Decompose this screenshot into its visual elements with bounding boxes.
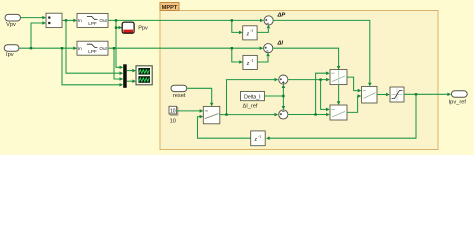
wire Ipv raw to mux in4 xyxy=(62,48,123,86)
svg-text:-1: -1 xyxy=(250,29,253,33)
input port Vpv xyxy=(5,14,21,28)
svg-text:Out: Out xyxy=(99,46,107,51)
svg-text:Ipv_ref: Ipv_ref xyxy=(449,100,467,106)
wire control pass through switch2 xyxy=(338,70,340,84)
wire S3 to top switch in2 and bottom switch in1 xyxy=(288,78,330,111)
junction dI-tap xyxy=(231,47,233,49)
svg-text:z: z xyxy=(246,30,250,37)
svg-text:z: z xyxy=(254,136,258,143)
svg-text:reset: reset xyxy=(173,93,186,99)
wire Ipv filtered drop to mux in3 xyxy=(114,48,123,81)
constant block 10 xyxy=(169,106,178,124)
switch4 block middle xyxy=(362,86,377,103)
wire z3 to switch1 in3 xyxy=(198,115,251,138)
canvas background xyxy=(0,0,474,155)
wire mux2 to scope2 in2 xyxy=(127,79,136,83)
wire switch4 to saturation xyxy=(377,93,390,97)
label dI xyxy=(277,41,284,47)
svg-text:z: z xyxy=(246,60,250,67)
wire Vpv to product in1 xyxy=(21,16,47,20)
sum block S1 xyxy=(264,16,273,25)
svg-text:-1: -1 xyxy=(258,135,261,139)
sum block S4 plus minus xyxy=(279,110,288,119)
wire z1 to sum1 minus xyxy=(257,25,270,33)
svg-text:MPPT: MPPT xyxy=(162,5,178,11)
junction Ppv-drop xyxy=(115,19,117,21)
wire S4 to bottom switch in2 and top switch in1 xyxy=(288,71,330,116)
unit delay z3 xyxy=(251,131,266,146)
junction switch1-out xyxy=(225,113,227,115)
wire z2 to sum2 minus xyxy=(257,53,270,62)
output port Ipv_ref xyxy=(449,91,468,106)
svg-text:LPF: LPF xyxy=(88,21,97,26)
svg-text:ΔI_ref: ΔI_ref xyxy=(243,103,258,109)
input port reset xyxy=(171,85,187,99)
wire product to LPF1 xyxy=(62,19,77,23)
junction Delta_I-split xyxy=(282,95,284,97)
switch1 block xyxy=(203,106,220,123)
svg-text:10: 10 xyxy=(170,109,176,115)
svg-text:In: In xyxy=(78,46,82,51)
svg-text:Vpv: Vpv xyxy=(6,22,16,28)
wire Ipv branch up to product in2 xyxy=(31,21,46,48)
MPPT area frame xyxy=(160,11,438,150)
svg-text:ΔP: ΔP xyxy=(277,13,286,19)
LPF subsystem U2 xyxy=(77,41,108,55)
svg-text:Ipv: Ipv xyxy=(6,52,14,58)
switch2 block top xyxy=(330,70,347,85)
junction dP-tap xyxy=(231,19,233,21)
scope2 dual waveform scope xyxy=(136,66,152,85)
wire 10 to switch1 in1 xyxy=(177,109,204,113)
LPF subsystem U1 xyxy=(77,13,108,27)
svg-text:Out: Out xyxy=(99,18,107,23)
svg-text:LPF: LPF xyxy=(88,49,97,54)
svg-text:Delta_I: Delta_I xyxy=(244,94,260,100)
wire Ipv main run to LPF2 xyxy=(19,46,77,50)
junction feedback-tap xyxy=(415,93,417,95)
constant block Delta_I xyxy=(241,91,265,109)
switch3 block bottom xyxy=(330,105,347,120)
mux M1 M2 xyxy=(123,64,127,88)
svg-text:ΔI: ΔI xyxy=(277,41,284,47)
wire Delta_I to mid sums xyxy=(264,84,285,109)
wire mux1 to scope2 in1 xyxy=(127,69,136,73)
scope Ppv xyxy=(122,22,148,33)
sum block S2 xyxy=(264,44,273,53)
wire Ppv filtered main run LPF1 to sum1 xyxy=(108,19,264,23)
svg-text:Ppv: Ppv xyxy=(138,26,148,32)
svg-text:10: 10 xyxy=(170,119,176,125)
wire Ppv drop to scope and mux in1 xyxy=(116,20,123,69)
svg-text:In: In xyxy=(78,18,82,23)
wire sum2 dI to top switch control xyxy=(273,48,341,69)
junction S3-out xyxy=(319,78,321,80)
junction S4-out xyxy=(314,113,316,115)
wire branch to unit delay z2 xyxy=(232,48,243,64)
input port Ipv xyxy=(4,45,19,58)
label dP xyxy=(277,13,286,19)
MPPT area label xyxy=(160,3,179,11)
sum block S3 plus plus xyxy=(279,75,288,84)
wire feedback to unit delay z3 xyxy=(266,94,416,140)
junction Ipv-raw-drop xyxy=(61,47,63,49)
junction Ipv-product xyxy=(30,47,32,49)
wire reset to switch1 control xyxy=(187,88,214,106)
saturation block xyxy=(390,87,404,102)
junction Ipv-filt-drop xyxy=(113,47,115,49)
svg-text:-1: -1 xyxy=(250,59,253,63)
wire switch1 to mid sums xyxy=(219,78,278,117)
wire Ipv filtered main run LPF2 to sum2 xyxy=(108,46,263,50)
wire sum1 dP to middle switch control xyxy=(273,20,371,86)
product block xyxy=(46,13,62,27)
wire saturation to Ipv_ref xyxy=(404,93,451,97)
wire switch2 to switch4 in1 xyxy=(347,77,361,92)
junction scope-tap xyxy=(115,26,117,28)
wire switch3 to switch4 in3 xyxy=(347,94,361,112)
wire product raw to mux in2 xyxy=(66,20,123,75)
unit delay z1 xyxy=(243,26,257,40)
wire branch to unit delay z1 xyxy=(232,20,243,34)
wire top switch to bottom switch control xyxy=(337,85,341,105)
junction product-out xyxy=(65,19,67,21)
unit delay z2 xyxy=(243,55,257,69)
